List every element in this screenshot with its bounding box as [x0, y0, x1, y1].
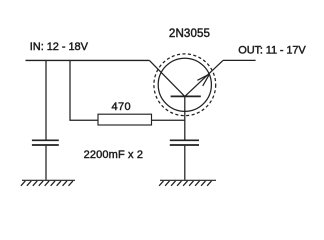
resistor R1 body	[98, 114, 152, 125]
wire: base lead down to node	[184, 96, 186, 139]
capacitor C2 top plate	[170, 139, 199, 141]
wire: C1 to ground	[45, 146, 47, 180]
svg-text:2200mF x 2: 2200mF x 2	[84, 149, 144, 161]
wire: input top rail	[26, 59, 150, 61]
svg-text:470: 470	[112, 101, 132, 113]
wire: C2 to ground	[184, 146, 186, 180]
ground symbol left	[21, 180, 75, 186]
svg-text:2N3055: 2N3055	[169, 27, 210, 40]
wire: rail drop and run to resistor R1	[70, 60, 98, 120]
wire: rail drop to capacitor C1	[45, 60, 47, 139]
wire: R1 to base node	[152, 119, 185, 121]
capacitor C2 bottom plate	[170, 144, 199, 146]
wire: output	[223, 59, 256, 61]
transistor Q1 emitter arrowhead barb lower	[203, 74, 210, 86]
ground symbol right	[159, 180, 216, 186]
svg-text:OUT: 11 - 17V: OUT: 11 - 17V	[238, 45, 306, 57]
transistor Q1 collector lead	[149, 60, 184, 96]
transistor Q1 base bar	[171, 95, 201, 97]
capacitor C1 top plate	[32, 139, 59, 141]
transistor Q1 emitter arrowhead barb upper	[197, 74, 209, 80]
capacitor C1 bottom plate	[32, 144, 59, 146]
svg-text:IN: 12 - 18V: IN: 12 - 18V	[30, 41, 89, 53]
transistor Q1 emitter lead	[185, 60, 223, 96]
transistor Q1 dashed package outline	[154, 54, 216, 116]
transistor Q1 body circle	[158, 58, 211, 111]
